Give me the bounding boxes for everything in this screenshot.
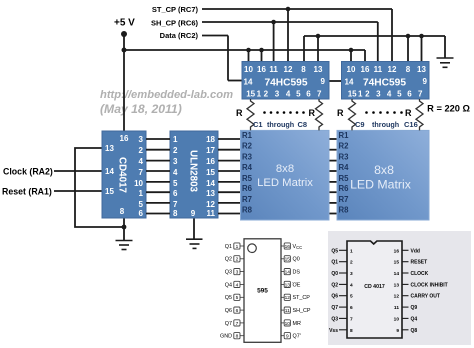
svg-text:8x8: 8x8 (276, 163, 294, 175)
595 left pin boxes 1-8 (234, 243, 244, 339)
svg-text:C16: C16 (404, 120, 418, 129)
svg-text:Reset (RA1): Reset (RA1) (2, 187, 52, 197)
svg-text:4: 4 (139, 157, 144, 166)
row wires CD4017 to ULN2803 (8 lines) (146, 139, 170, 214)
resistor R (last of C1-C8 bank) (316, 99, 323, 130)
CD4017 pinout panel (328, 231, 471, 345)
svg-text:R3: R3 (242, 153, 253, 162)
svg-text:13: 13 (314, 65, 323, 74)
svg-text:R3: R3 (339, 153, 350, 162)
wire ground rail drop at right (444, 36, 446, 58)
svg-text:16: 16 (206, 157, 215, 166)
svg-text:R5: R5 (339, 174, 350, 183)
svg-text:15: 15 (285, 257, 291, 263)
svg-text:14: 14 (206, 179, 215, 188)
svg-text:6: 6 (236, 308, 239, 314)
svg-text:13: 13 (105, 144, 114, 153)
svg-text:LED Matrix: LED Matrix (257, 177, 313, 189)
svg-text:Vdd: Vdd (411, 248, 420, 254)
U1 pin numbers top row (10 16 11 12 8 13) (244, 65, 323, 74)
svg-text:LED Matrix: LED Matrix (350, 178, 412, 192)
svg-text:12: 12 (284, 65, 293, 74)
svg-text:Q9: Q9 (411, 305, 418, 311)
svg-text:8: 8 (406, 65, 411, 74)
wire Data vertical drop (227, 36, 229, 81)
svg-text:1: 1 (257, 90, 262, 99)
CD4017 right pin leads (402, 250, 409, 329)
wire ST_CP drop to U2 pin 12 (391, 9, 393, 62)
shift register U1 74HC595 (242, 62, 329, 100)
svg-text:SH_CP: SH_CP (293, 308, 311, 314)
ground symbol top right (437, 58, 454, 67)
resistor R (first of C1-C8 bank) (247, 99, 254, 130)
svg-text:12: 12 (285, 295, 291, 301)
595 right pin names (293, 244, 311, 340)
595 package body (244, 239, 281, 342)
svg-text:11: 11 (374, 65, 383, 74)
svg-text:Q6: Q6 (225, 308, 232, 314)
svg-text:15: 15 (348, 90, 357, 99)
svg-text:4: 4 (350, 282, 353, 288)
svg-text:10: 10 (285, 321, 291, 327)
U3 right pin numbers (3 2 4 7 10 1 5 6) (134, 135, 143, 218)
wire cascade U1 pin 9 to U2 pin 14 (329, 80, 342, 82)
row wires LED matrix 1 to LED matrix 2 (8 stubs) (328, 139, 337, 214)
svg-text:6: 6 (173, 189, 178, 198)
svg-text:Q1: Q1 (331, 260, 338, 266)
svg-text:74HC595: 74HC595 (264, 78, 307, 89)
svg-text:DS: DS (293, 270, 301, 276)
svg-text:4: 4 (387, 90, 392, 99)
svg-text:R: R (309, 108, 316, 118)
svg-text:2: 2 (236, 257, 239, 263)
svg-text:ST_CP (RC7): ST_CP (RC7) (152, 5, 199, 14)
junction dot ground rail at U2 pin 8 (406, 34, 411, 39)
svg-text:14: 14 (285, 270, 291, 276)
svg-text:Q1: Q1 (225, 244, 232, 250)
svg-text:5: 5 (173, 179, 178, 188)
svg-text:10: 10 (347, 65, 356, 74)
svg-text:7: 7 (418, 90, 423, 99)
svg-text:8: 8 (236, 334, 239, 340)
svg-text:12: 12 (388, 65, 397, 74)
svg-text:2: 2 (350, 260, 353, 266)
svg-text:C8: C8 (298, 120, 308, 129)
svg-text:1: 1 (358, 90, 363, 99)
svg-text:CLOCK: CLOCK (411, 271, 429, 277)
svg-text:16: 16 (285, 244, 291, 250)
ellipsis dots bank2 (365, 111, 403, 114)
LED matrix module DS2 (337, 130, 429, 220)
svg-text:Q7: Q7 (225, 321, 232, 327)
svg-text:9: 9 (396, 328, 399, 334)
svg-text:7: 7 (350, 316, 353, 322)
svg-text:8: 8 (301, 65, 306, 74)
svg-text:16: 16 (120, 134, 129, 143)
junction dot ground rail at U2 pin 13 (419, 34, 424, 39)
svg-text:Q2: Q2 (225, 257, 232, 263)
svg-text:R: R (405, 108, 412, 118)
row wires ULN2803 to LED matrix 1 (8 lines) (218, 139, 242, 214)
svg-text:through: through (267, 120, 294, 129)
driver U4 ULN2803 (170, 131, 218, 218)
svg-text:13: 13 (417, 65, 426, 74)
U2 pin numbers top row (10 16 11 12 8 13) (347, 65, 427, 74)
svg-text:R = 220 Ω: R = 220 Ω (427, 104, 470, 114)
wire U1 pin 8 stub to ground rail (303, 36, 305, 62)
junction dot +5V at U2 pin 10 (349, 48, 354, 53)
svg-text:15: 15 (105, 187, 114, 196)
svg-text:GND: GND (220, 334, 232, 340)
CD4017 left pin numbers 1-8 (350, 248, 353, 333)
svg-text:R8: R8 (339, 206, 350, 215)
svg-text:16: 16 (257, 65, 266, 74)
svg-text:SH_CP (RC6): SH_CP (RC6) (151, 19, 198, 28)
svg-text:Q0: Q0 (331, 271, 338, 277)
wire ST_CP drop to U1 pin 12 (287, 9, 289, 62)
svg-text:5: 5 (296, 90, 301, 99)
svg-text:8: 8 (350, 328, 353, 334)
svg-text:through: through (372, 120, 399, 129)
svg-text:Q2: Q2 (331, 282, 338, 288)
CD4017 left pin leads (339, 250, 347, 329)
svg-text:9: 9 (191, 209, 196, 218)
svg-text:3: 3 (173, 157, 178, 166)
junction dot ground rail at U1 pin 13 (316, 34, 321, 39)
svg-text:11: 11 (285, 308, 290, 314)
wire Clock to CD4017 pin 14 (54, 170, 102, 172)
svg-text:ULN2803: ULN2803 (188, 150, 199, 192)
svg-text:15: 15 (394, 260, 400, 266)
svg-text:http://embedded-lab.com: http://embedded-lab.com (100, 89, 233, 101)
U4 left pin numbers (1-8) (173, 135, 178, 218)
svg-text:RESET: RESET (411, 260, 428, 266)
wire +5V stub to U1 pin 16 (261, 50, 263, 62)
595 pin1 indicator circle (248, 244, 257, 253)
svg-text:R6: R6 (242, 184, 253, 193)
595 right pin boxes 16-9 (281, 243, 290, 339)
ground symbol below ULN2803 (186, 239, 203, 248)
svg-text:Clock (RA2): Clock (RA2) (3, 167, 53, 177)
svg-text:8: 8 (120, 207, 125, 216)
svg-text:CD 4017: CD 4017 (364, 284, 385, 290)
wire SH_CP horizontal rail (202, 21, 378, 23)
svg-text:R2: R2 (242, 142, 253, 151)
svg-text:R: R (337, 108, 344, 118)
svg-text:ST_CP: ST_CP (293, 295, 311, 301)
svg-text:11: 11 (207, 209, 216, 218)
svg-text:R8: R8 (242, 206, 253, 215)
wire U2 pin 8 stub to ground rail (407, 36, 409, 62)
svg-text:(May 18, 2011): (May 18, 2011) (100, 102, 182, 116)
svg-text:Q4: Q4 (411, 316, 418, 322)
svg-text:R4: R4 (339, 163, 350, 172)
svg-text:10: 10 (134, 179, 143, 188)
svg-text:9: 9 (286, 334, 289, 340)
DS1 row pin labels R1-R8 (242, 131, 253, 215)
svg-text:Q5: Q5 (225, 295, 232, 301)
junction dot SH_CP at U1 pin11 branch (271, 20, 276, 25)
svg-text:Q5: Q5 (331, 248, 338, 254)
svg-text:5: 5 (139, 200, 144, 209)
CD4017 right pin names (411, 248, 448, 333)
svg-text:1: 1 (350, 248, 353, 254)
svg-text:R4: R4 (242, 163, 253, 172)
svg-text:R7: R7 (242, 195, 252, 204)
svg-text:10: 10 (394, 316, 400, 322)
svg-text:3: 3 (350, 271, 353, 277)
svg-text:Q4: Q4 (225, 282, 232, 288)
svg-text:6: 6 (407, 90, 412, 99)
LED matrix module DS1 (241, 130, 330, 220)
svg-text:R1: R1 (339, 131, 350, 140)
svg-text:7: 7 (139, 168, 144, 177)
svg-text:3: 3 (139, 135, 144, 144)
junction dot +5V rail branch (122, 48, 127, 53)
svg-text:16: 16 (361, 65, 370, 74)
svg-text:595: 595 (257, 288, 268, 295)
svg-text:15: 15 (246, 90, 255, 99)
svg-text:2: 2 (139, 146, 144, 155)
svg-text:Q3: Q3 (225, 270, 232, 276)
junction dot +5V at U1 pin 10 (246, 48, 251, 53)
svg-text:10: 10 (244, 65, 253, 74)
ellipsis dots bank1 (263, 111, 305, 114)
U4 right pin numbers (18-11) (206, 135, 215, 218)
svg-text:6: 6 (139, 209, 144, 218)
wire U1 pin 13 stub to ground rail (317, 36, 319, 62)
svg-text:14: 14 (244, 78, 253, 87)
svg-text:15: 15 (206, 168, 215, 177)
svg-text:7: 7 (173, 200, 178, 209)
svg-text:12: 12 (394, 294, 400, 300)
svg-text:VCC: VCC (293, 244, 303, 250)
svg-text:18: 18 (206, 135, 215, 144)
svg-text:12: 12 (206, 200, 215, 209)
svg-text:9: 9 (321, 77, 326, 86)
svg-text:7: 7 (236, 321, 239, 327)
svg-text:CARRY OUT: CARRY OUT (411, 294, 440, 300)
svg-text:3: 3 (236, 270, 239, 276)
svg-text:4: 4 (236, 282, 239, 288)
595 right pin numbers (285, 244, 291, 340)
U3 left pin numbers (13 14 15) (105, 144, 114, 196)
svg-text:CLOCK INHIBIT: CLOCK INHIBIT (411, 282, 448, 288)
svg-text:3: 3 (275, 90, 280, 99)
svg-text:R5: R5 (242, 174, 253, 183)
svg-text:3: 3 (376, 90, 381, 99)
shift register U2 74HC595 (342, 62, 430, 100)
svg-text:Q7: Q7 (331, 305, 338, 311)
svg-text:4: 4 (286, 90, 291, 99)
svg-text:C9: C9 (355, 120, 365, 129)
svg-text:1: 1 (139, 189, 144, 198)
counter U3 CD4017 (102, 131, 146, 218)
svg-text:+5 V: +5 V (114, 18, 135, 29)
svg-text:13: 13 (285, 282, 291, 288)
wire ground rail top (304, 35, 445, 37)
svg-text:5: 5 (236, 295, 239, 301)
svg-text:OE: OE (293, 282, 301, 288)
wire +5V vertical to CD4017 pin 16 (123, 33, 125, 131)
svg-text:11: 11 (394, 305, 399, 311)
wire ULN2803 pin 9 to ground (193, 218, 195, 239)
DS2 row pin labels R1-R8 (339, 131, 350, 215)
svg-text:Q8: Q8 (411, 328, 418, 334)
svg-text:Data (RC2): Data (RC2) (160, 31, 199, 40)
595 left pin names (220, 244, 232, 340)
junction dot CD4017 pin 8 ground node (122, 225, 127, 230)
svg-text:74HC595: 74HC595 (363, 78, 406, 89)
svg-text:R: R (236, 108, 243, 118)
wire CD4017 pin 13 loop left (75, 148, 124, 227)
svg-text:14: 14 (345, 78, 354, 87)
svg-text:R6: R6 (339, 184, 350, 193)
svg-text:Q0: Q0 (293, 257, 300, 263)
svg-text:R2: R2 (339, 142, 350, 151)
svg-text:7: 7 (317, 90, 322, 99)
wire +5V horizontal rail (124, 49, 365, 51)
ground symbol below CD4017 (116, 241, 133, 250)
CD4017 left pin names (329, 248, 338, 333)
wire +5V drop to U2 pin 16 (364, 50, 366, 62)
wire U2 pin 13 stub to ground rail (421, 36, 423, 62)
junction dot +5V top (121, 31, 127, 37)
svg-text:14: 14 (105, 167, 114, 176)
svg-text:6: 6 (306, 90, 311, 99)
wire Data into U1 pin 14 (228, 80, 242, 82)
svg-text:4: 4 (173, 168, 178, 177)
CD4017 pinout body (347, 241, 402, 338)
resistor R (first of C9-C16 bank) (349, 99, 356, 130)
svg-text:2: 2 (173, 146, 178, 155)
svg-text:11: 11 (269, 65, 278, 74)
svg-text:Q7': Q7' (293, 334, 301, 340)
svg-text:R7: R7 (339, 195, 349, 204)
U2 pin numbers bottom row (15 1 2 3 4 5 6 7) (348, 90, 423, 99)
svg-text:13: 13 (394, 282, 400, 288)
wire +5V stub to U2 pin 10 (350, 50, 352, 62)
svg-text:2: 2 (264, 90, 269, 99)
svg-text:MR: MR (293, 321, 301, 327)
U1 pin numbers bottom row (15 1 2 3 4 5 6 7) (246, 90, 322, 99)
svg-text:8: 8 (173, 209, 178, 218)
wire Data horizontal from label (202, 35, 228, 37)
svg-text:5: 5 (397, 90, 402, 99)
junction dot ST_CP at U1 pin12 branch (286, 7, 291, 12)
wire SH_CP drop to U2 pin 11 (377, 22, 379, 62)
wire SH_CP drop to U1 pin 11 (273, 22, 275, 62)
wire Reset to CD4017 pin 15 (54, 190, 102, 192)
CD4017 right pin numbers 16-9 (394, 248, 400, 333)
wire ST_CP horizontal rail (202, 8, 392, 10)
svg-text:CD4017: CD4017 (117, 157, 128, 193)
wire CD4017 pin 8 to ground (123, 218, 125, 240)
svg-text:9: 9 (423, 77, 428, 86)
svg-text:2: 2 (365, 90, 370, 99)
svg-text:1: 1 (173, 135, 178, 144)
junction dot +5V at U1 pin 16 (259, 48, 264, 53)
svg-text:Q6: Q6 (331, 294, 338, 300)
svg-text:Vss: Vss (329, 328, 338, 334)
svg-text:13: 13 (206, 189, 215, 198)
resistor R (last of C9-C16 bank) (416, 99, 423, 130)
svg-text:8x8: 8x8 (374, 163, 394, 177)
svg-text:16: 16 (394, 248, 400, 254)
svg-text:Q3: Q3 (331, 316, 338, 322)
svg-text:6: 6 (350, 305, 353, 311)
wire +5V stub to U1 pin 10 (248, 50, 250, 62)
svg-text:5: 5 (350, 294, 353, 300)
svg-text:17: 17 (206, 146, 215, 155)
svg-text:14: 14 (394, 271, 400, 277)
595 left pin numbers (236, 244, 239, 340)
svg-text:1: 1 (236, 244, 239, 250)
svg-text:C1: C1 (253, 120, 263, 129)
svg-text:R1: R1 (242, 131, 253, 140)
